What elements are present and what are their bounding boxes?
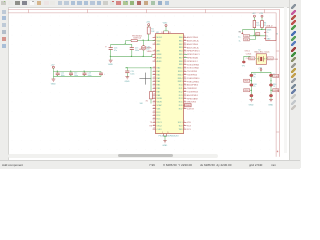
svg-text:RB8: RB8 xyxy=(179,61,183,63)
wire U2 bottom pins to ground xyxy=(164,136,167,140)
svg-text:CLK12: CLK12 xyxy=(246,58,252,60)
wire left of FB1 xyxy=(111,41,132,45)
svg-text:+5V: +5V xyxy=(146,22,150,24)
svg-text:RC0: RC0 xyxy=(179,85,183,87)
svg-text:RC8: RC8 xyxy=(187,126,191,128)
schematic canvas xyxy=(0,0,300,168)
svg-text:21: 21 xyxy=(153,104,155,106)
svg-text:TMS/RB12: TMS/RB12 xyxy=(187,88,198,90)
svg-text:AN0: AN0 xyxy=(157,43,161,46)
USB connector J2 xyxy=(264,26,279,41)
crystal X2 xyxy=(256,54,266,65)
svg-text:GND: GND xyxy=(108,64,113,66)
power symbol +5V R3 xyxy=(252,13,256,20)
svg-text:RPB2/SDA2: RPB2/SDA2 xyxy=(187,57,199,60)
svg-text:RC2: RC2 xyxy=(179,91,183,93)
sheet frame ruler ticks xyxy=(29,9,280,153)
power symbol +5V divider xyxy=(258,68,262,73)
svg-text:20: 20 xyxy=(184,70,186,72)
svg-text:RB9: RB9 xyxy=(179,64,183,66)
svg-text:28: 28 xyxy=(169,32,171,34)
U2 right-side pins with numbers xyxy=(184,36,187,130)
power symbol +5V cap bank xyxy=(51,64,55,71)
wire VDD to U2 top pins xyxy=(164,26,169,31)
microcontroller U2 body xyxy=(156,32,184,134)
svg-text:5V: 5V xyxy=(239,32,242,34)
svg-text:AN4/C1IN-B: AN4/C1IN-B xyxy=(187,43,199,46)
svg-text:MCLR: MCLR xyxy=(157,37,163,39)
capacitor C16 polarized xyxy=(105,44,117,56)
svg-text:AVDD: AVDD xyxy=(157,56,163,59)
right toolbar xyxy=(289,0,301,168)
svg-text:CVBS: CVBS xyxy=(273,76,279,78)
svg-text:D-/RG3: D-/RG3 xyxy=(187,109,195,111)
svg-text:RC5: RC5 xyxy=(179,102,183,104)
svg-text:OSC1: OSC1 xyxy=(245,50,250,52)
capacitor C19 xyxy=(125,68,134,77)
svg-text:17: 17 xyxy=(184,80,186,82)
svg-text:AN1: AN1 xyxy=(157,50,161,53)
svg-text:5: 5 xyxy=(184,121,185,123)
wire R1 to node A xyxy=(148,34,150,41)
svg-text:29: 29 xyxy=(184,39,186,41)
svg-text:VDD: VDD xyxy=(163,23,168,25)
svg-text:11: 11 xyxy=(184,101,186,103)
wire U2 MCLR pin to C19 xyxy=(125,67,153,69)
U2 left-side pin names xyxy=(157,37,163,131)
global label D- xyxy=(239,38,250,42)
svg-text:25: 25 xyxy=(153,118,155,120)
cap bank top rail wire xyxy=(53,71,101,73)
svg-text:10: 10 xyxy=(153,67,155,69)
junction C17 rail xyxy=(131,56,132,57)
U2 top power pins xyxy=(161,31,171,34)
capacitor C18 tantalum xyxy=(141,41,149,57)
svg-text:27: 27 xyxy=(153,124,155,126)
U2 value caption xyxy=(159,135,180,137)
sheet frame outer border xyxy=(8,9,279,156)
svg-text:28: 28 xyxy=(153,128,155,130)
svg-text:RB13: RB13 xyxy=(178,74,183,76)
global label crystal left xyxy=(249,57,257,61)
svg-text:RB0: RB0 xyxy=(179,37,183,39)
U2 left-side pins with numbers xyxy=(153,36,156,130)
svg-text:15: 15 xyxy=(153,84,155,86)
svg-text:5: 5 xyxy=(154,50,155,52)
svg-text:3: 3 xyxy=(154,43,155,45)
svg-text:VBUS: VBUS xyxy=(157,102,163,104)
svg-text:23: 23 xyxy=(153,111,155,113)
svg-text:3: 3 xyxy=(184,128,185,130)
capacitor C14 polarized xyxy=(99,72,106,77)
svg-text:AN11/PMD1: AN11/PMD1 xyxy=(187,94,199,97)
svg-text:USB-: USB- xyxy=(244,40,249,42)
svg-text:25: 25 xyxy=(184,53,186,55)
wire stubs on U2 right pins rows 5-6 xyxy=(184,54,188,57)
svg-text:RPB3/SCL2: RPB3/SCL2 xyxy=(187,61,199,63)
svg-text:RB10: RB10 xyxy=(178,68,183,70)
net labels on U2 left pins xyxy=(146,47,153,52)
wire R4 lead down xyxy=(261,28,263,30)
junction R1 bottom xyxy=(148,40,149,41)
junction C16 rail xyxy=(110,56,111,57)
vertical scrollbar track xyxy=(284,7,288,153)
svg-text:8: 8 xyxy=(154,60,155,62)
svg-text:+: + xyxy=(104,74,106,76)
svg-text:26: 26 xyxy=(153,121,155,123)
svg-text:VUSB: VUSB xyxy=(157,98,163,100)
svg-text:RA3: RA3 xyxy=(157,77,161,80)
ground cap bank xyxy=(51,76,56,85)
svg-text:RC3: RC3 xyxy=(157,112,161,114)
wire divider top rail xyxy=(251,72,271,74)
svg-text:6: 6 xyxy=(154,53,155,55)
global label crystal right xyxy=(266,57,278,61)
svg-text:18: 18 xyxy=(153,94,155,96)
svg-text:1K5: 1K5 xyxy=(256,25,259,27)
power flag on VBUS xyxy=(241,32,243,34)
svg-text:23: 23 xyxy=(184,60,186,62)
svg-text:GND: GND xyxy=(162,145,167,147)
svg-text:RPB15/AN9: RPB15/AN9 xyxy=(187,97,199,100)
net labels on U2 lower left pins xyxy=(150,122,153,127)
svg-text:GND: GND xyxy=(268,105,273,107)
cap bank bottom rail wire xyxy=(53,72,101,77)
svg-text:15: 15 xyxy=(184,87,186,89)
svg-text:PGEC: PGEC xyxy=(185,105,191,107)
U2 right-side pin names xyxy=(178,37,183,131)
svg-text:RB5: RB5 xyxy=(157,85,161,87)
test point cluster left of crystal xyxy=(245,50,252,60)
svg-text:RB8: RB8 xyxy=(157,95,161,97)
svg-text:30: 30 xyxy=(184,36,186,38)
wire VBUS net xyxy=(242,30,265,32)
svg-text:75: 75 xyxy=(253,77,255,79)
svg-text:100n: 100n xyxy=(74,75,78,77)
svg-text:RA2: RA2 xyxy=(157,73,161,76)
resistor R2 xyxy=(140,92,153,105)
svg-text:16: 16 xyxy=(184,84,186,86)
svg-text:+5V: +5V xyxy=(259,13,263,15)
svg-text:10K: 10K xyxy=(151,31,155,33)
svg-text:TCK/RPB13: TCK/RPB13 xyxy=(187,92,199,94)
svg-text:PGEC2/RB11: PGEC2/RB11 xyxy=(187,81,200,83)
power symbol +5V R4 xyxy=(259,13,263,20)
status bar xyxy=(0,160,300,169)
svg-text:12: 12 xyxy=(153,73,155,75)
svg-text:28: 28 xyxy=(184,43,186,45)
svg-text:+5V: +5V xyxy=(51,64,55,66)
svg-text:RC6: RC6 xyxy=(179,105,183,107)
svg-text:21: 21 xyxy=(184,67,186,69)
svg-text:RC9: RC9 xyxy=(187,129,191,131)
junction on 44-wire xyxy=(125,43,126,44)
svg-text:18: 18 xyxy=(184,77,186,79)
svg-text:7: 7 xyxy=(154,56,155,58)
ferrite bead FB1 xyxy=(131,39,138,41)
svg-text:11: 11 xyxy=(153,70,155,72)
svg-text:RB4: RB4 xyxy=(179,51,183,53)
crystal block title xyxy=(254,49,270,53)
svg-text:PIC32MX220F032B-SO: PIC32MX220F032B-SO xyxy=(159,135,180,137)
left toolbar xyxy=(0,7,9,168)
svg-text:1: 1 xyxy=(154,36,155,38)
svg-text:8: 8 xyxy=(162,132,163,134)
svg-text:16: 16 xyxy=(153,87,155,89)
wire test point to crystal label xyxy=(244,56,251,60)
svg-text:10K: 10K xyxy=(140,103,144,105)
svg-text:1A 600: 1A 600 xyxy=(139,48,145,51)
svg-text:RC7: RC7 xyxy=(179,108,183,110)
capacitor C11 xyxy=(56,71,65,77)
svg-text:CLKO: CLKO xyxy=(268,59,274,61)
svg-text:4: 4 xyxy=(277,149,279,153)
svg-text:D+: D+ xyxy=(238,37,241,39)
svg-text:VDD: VDD xyxy=(157,40,162,42)
svg-text:D-: D- xyxy=(239,40,241,42)
svg-text:100n: 100n xyxy=(61,75,65,77)
svg-text:9: 9 xyxy=(184,107,185,109)
divider branch x=271 value labels xyxy=(273,74,276,88)
svg-text:RA1: RA1 xyxy=(157,70,161,73)
svg-text:VSS: VSS xyxy=(187,122,192,124)
net labels on U2 right pins xyxy=(185,36,201,131)
svg-text:13: 13 xyxy=(184,94,186,96)
capacitor C13 xyxy=(83,71,92,77)
svg-text:RA0: RA0 xyxy=(157,67,161,70)
svg-text:AN5/C1IN+A: AN5/C1IN+A xyxy=(187,46,199,49)
svg-text:13: 13 xyxy=(161,32,163,34)
power symbol +5V above R1 xyxy=(146,22,150,27)
capacitor C17 xyxy=(130,44,139,56)
global label boxes right branch xyxy=(271,74,279,92)
horizontal scrollbar xyxy=(8,154,218,158)
svg-text:GND: GND xyxy=(51,83,56,85)
svg-text:OSC1: OSC1 xyxy=(157,122,162,124)
ground below U2 xyxy=(162,141,167,147)
svg-text:17: 17 xyxy=(153,90,155,92)
svg-text:RB6: RB6 xyxy=(157,88,161,90)
resistor R1 xyxy=(147,27,155,34)
svg-text:D+: D+ xyxy=(267,32,269,34)
svg-text:RC1: RC1 xyxy=(179,88,183,90)
svg-text:100n: 100n xyxy=(130,73,134,75)
svg-text:22: 22 xyxy=(153,107,155,109)
wire node A to U2 pin xyxy=(138,40,156,42)
junction R4 on VBUS wire xyxy=(261,29,262,30)
svg-text:TDI/RPB10: TDI/RPB10 xyxy=(187,75,198,77)
ground divider branch x=271 xyxy=(268,100,273,107)
svg-text:GND: GND xyxy=(125,81,130,83)
svg-text:RB7: RB7 xyxy=(157,91,161,93)
svg-text:TDO: TDO xyxy=(179,125,184,127)
ground left of rail xyxy=(108,57,113,66)
svg-text:RC3: RC3 xyxy=(179,95,183,97)
svg-text:GND: GND xyxy=(249,105,254,107)
svg-text:RB1: RB1 xyxy=(179,40,183,42)
global label D+ xyxy=(238,34,250,38)
junction R3 on D+ wire xyxy=(254,35,255,36)
svg-text:100n: 100n xyxy=(88,75,92,77)
top toolbar xyxy=(0,0,300,8)
svg-text:47u: 47u xyxy=(114,50,117,52)
svg-text:SCL1: SCL1 xyxy=(178,122,183,124)
canvas grid dots xyxy=(12,16,271,150)
resistor R3 xyxy=(253,21,260,28)
svg-text:RB14: RB14 xyxy=(178,78,183,80)
cursor crosshair xyxy=(139,73,151,85)
global label boxes left branch xyxy=(244,79,252,92)
ground rail wire xyxy=(111,54,153,56)
ground under C19 xyxy=(125,77,130,83)
svg-text:TDO/RPB9: TDO/RPB9 xyxy=(187,71,198,73)
svg-text:+5V: +5V xyxy=(252,13,256,15)
svg-text:22: 22 xyxy=(184,63,186,65)
svg-text:RB7: RB7 xyxy=(179,57,183,59)
junction node A xyxy=(143,40,144,41)
junction C19 top xyxy=(126,67,127,68)
svg-text:12: 12 xyxy=(184,97,186,99)
wire down to R2 xyxy=(150,68,152,92)
svg-text:14: 14 xyxy=(153,80,155,82)
junction R2 branch xyxy=(150,67,151,68)
net label box at D+ junction xyxy=(256,33,260,36)
svg-text:CLK24: CLK24 xyxy=(246,53,252,55)
svg-text:13: 13 xyxy=(153,77,155,79)
svg-text:USB+: USB+ xyxy=(244,36,250,38)
svg-text:4: 4 xyxy=(184,124,185,126)
svg-text:24M: 24M xyxy=(274,59,278,61)
svg-text:19: 19 xyxy=(167,132,169,134)
svg-text:RA4: RA4 xyxy=(157,80,161,83)
svg-text:19: 19 xyxy=(184,73,186,75)
svg-text:VREF-: VREF- xyxy=(147,51,153,53)
svg-text:VID2: VID2 xyxy=(244,90,248,92)
ferrite bead FB1 labels xyxy=(132,35,142,39)
label near power flag xyxy=(239,32,242,34)
svg-text:RC5: RC5 xyxy=(157,119,161,121)
svg-text:20: 20 xyxy=(153,101,155,103)
svg-text:RPB1/PGEC1: RPB1/PGEC1 xyxy=(187,54,200,56)
svg-text:VCAP: VCAP xyxy=(157,104,163,107)
svg-text:+: + xyxy=(105,46,107,49)
svg-text:75: 75 xyxy=(273,86,275,88)
svg-text:TP1: TP1 xyxy=(242,65,245,67)
svg-text:CLKO: CLKO xyxy=(157,129,163,131)
svg-text:VID1: VID1 xyxy=(244,81,248,83)
svg-text:RC4: RC4 xyxy=(157,115,161,117)
svg-text:75: 75 xyxy=(253,86,255,88)
svg-text:14: 14 xyxy=(184,90,186,92)
svg-text:B: B xyxy=(277,34,279,36)
svg-text:RB15: RB15 xyxy=(178,81,183,83)
svg-text:VREF: VREF xyxy=(157,54,163,56)
svg-text:SOSCO/RA4: SOSCO/RA4 xyxy=(187,67,200,70)
svg-text:Video Enc Clock: Video Enc Clock xyxy=(254,52,270,54)
resistor R4 xyxy=(261,21,267,28)
wire R3 lead down xyxy=(253,28,255,36)
svg-text:AN12/PMD0: AN12/PMD0 xyxy=(187,84,199,87)
wire D- net xyxy=(250,36,256,40)
svg-text:RB3: RB3 xyxy=(179,47,183,49)
svg-text:26: 26 xyxy=(184,50,186,52)
svg-text:AN3/C2IN+A: AN3/C2IN+A xyxy=(187,40,199,43)
svg-text:RC4: RC4 xyxy=(179,98,183,100)
svg-text:R2: R2 xyxy=(146,101,148,103)
divider branch x=251.4 value labels xyxy=(253,74,256,88)
svg-text:LUMA: LUMA xyxy=(273,89,279,92)
capacitor C12 xyxy=(69,71,78,77)
svg-text:OSC2: OSC2 xyxy=(157,125,162,127)
svg-text:SOSCI/RPA4: SOSCI/RPA4 xyxy=(187,63,200,66)
svg-text:10u: 10u xyxy=(146,49,149,51)
svg-text:27: 27 xyxy=(184,46,186,48)
power symbol VDD above U2 xyxy=(163,23,168,27)
value label under FB1 xyxy=(139,48,145,51)
ground divider branch x=251.4 xyxy=(249,100,254,107)
svg-text:PGED2/RB10: PGED2/RB10 xyxy=(187,78,200,80)
svg-text:RB2: RB2 xyxy=(179,44,183,46)
svg-text:AVSS: AVSS xyxy=(157,60,163,63)
svg-text:AN2/C2IN-B: AN2/C2IN-B xyxy=(187,36,199,39)
svg-text:RB11: RB11 xyxy=(178,71,183,73)
svg-text:RPB0/PGED1: RPB0/PGED1 xyxy=(187,51,200,53)
divider branch x=251.4 ovals xyxy=(250,74,253,99)
divider branch x=271 ovals xyxy=(269,74,272,99)
junction C18 rail xyxy=(143,56,144,57)
svg-text:19: 19 xyxy=(153,97,155,99)
svg-text:RB5: RB5 xyxy=(179,54,183,56)
svg-text:24: 24 xyxy=(153,114,155,116)
wire D+ net xyxy=(249,35,265,37)
test point TP1 xyxy=(242,61,246,67)
U2 bottom pins xyxy=(162,132,168,136)
